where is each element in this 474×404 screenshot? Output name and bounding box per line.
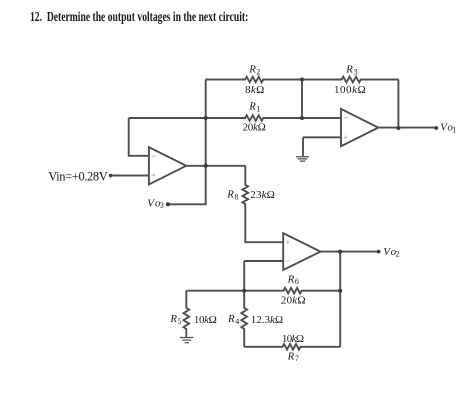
svg-text:2: 2 (256, 67, 260, 76)
svg-text:10kΩ: 10kΩ (282, 333, 304, 345)
svg-text:1: 1 (452, 125, 456, 134)
svg-text:R: R (248, 64, 256, 76)
svg-text:20kΩ: 20kΩ (281, 294, 306, 306)
svg-text:2: 2 (396, 250, 400, 259)
svg-text:R: R (226, 189, 234, 201)
svg-text:R: R (287, 351, 295, 363)
svg-text:10kΩ: 10kΩ (194, 314, 217, 326)
svg-text:12.3kΩ: 12.3kΩ (251, 314, 283, 326)
svg-text:5: 5 (178, 317, 182, 326)
svg-text:8: 8 (235, 192, 239, 201)
svg-text:R: R (248, 101, 256, 113)
svg-text:R: R (227, 313, 235, 325)
svg-text:23kΩ: 23kΩ (250, 189, 274, 201)
svg-text:1: 1 (256, 104, 260, 113)
svg-text:8kΩ: 8kΩ (245, 84, 264, 96)
svg-text:3: 3 (160, 201, 164, 210)
svg-text:R: R (169, 313, 177, 325)
svg-text:3: 3 (354, 67, 358, 76)
svg-text:R: R (345, 64, 353, 76)
svg-text:100kΩ: 100kΩ (334, 84, 366, 96)
svg-text:6: 6 (295, 277, 299, 286)
svg-text:7: 7 (295, 354, 299, 363)
svg-text:4: 4 (235, 317, 239, 326)
svg-text:20kΩ: 20kΩ (243, 121, 266, 133)
svg-text:Vin=+0.28V: Vin=+0.28V (48, 170, 108, 184)
svg-text:R: R (287, 273, 295, 285)
